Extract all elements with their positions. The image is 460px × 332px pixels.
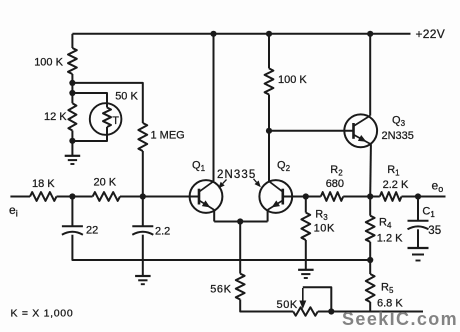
wire R5 bottom bbox=[369, 302, 371, 312]
label 6.8K bbox=[377, 297, 403, 309]
label Q1 bbox=[192, 160, 206, 174]
label C1 bbox=[422, 206, 435, 220]
svg-text:6.8 K: 6.8 K bbox=[377, 297, 403, 309]
label Q2 bbox=[277, 159, 291, 173]
capacitor 22 bbox=[62, 226, 83, 235]
node 1MEG tap bbox=[69, 80, 75, 86]
node R2 R1 R4 Q3e junction bbox=[367, 193, 373, 199]
wire rail to 100K bbox=[71, 34, 73, 48]
capacitor C1 35 bbox=[408, 221, 429, 230]
node rail-Q1 collector junction bbox=[210, 31, 216, 37]
svg-text:100 K: 100 K bbox=[278, 74, 307, 86]
svg-text:18 K: 18 K bbox=[32, 178, 55, 190]
wire Q2 emitter down bbox=[267, 210, 269, 222]
svg-text:T: T bbox=[112, 115, 119, 127]
ground below 2.2 bbox=[135, 276, 151, 284]
label 10K bbox=[314, 223, 335, 235]
wire R5 top bbox=[369, 260, 371, 274]
resistor R2 680 bbox=[321, 192, 343, 201]
label 18K bbox=[32, 178, 55, 190]
resistor 20K bbox=[93, 192, 120, 201]
svg-text:2N335: 2N335 bbox=[382, 130, 414, 142]
svg-text:SeekIC.com: SeekIC.com bbox=[342, 309, 458, 329]
wire R2 to node bbox=[343, 196, 370, 198]
wire Q3 base bbox=[269, 130, 354, 132]
arrow to Q2 bbox=[254, 179, 261, 187]
wire 22 cap bottom to bus bbox=[72, 235, 142, 260]
svg-text:680: 680 bbox=[326, 178, 344, 190]
label 35 bbox=[428, 225, 441, 237]
resistor 56K bbox=[236, 274, 245, 300]
wire Q1 collector bbox=[213, 34, 215, 182]
wire R4 bottom bbox=[369, 242, 371, 260]
node R4 R5 bus junction bbox=[367, 257, 373, 263]
thermistor circle bbox=[90, 103, 122, 135]
wire C1 bottom bbox=[417, 229, 419, 248]
transistor Q3 2N335 bbox=[344, 114, 377, 147]
wire input lead bbox=[10, 196, 30, 198]
label R5 bbox=[381, 282, 394, 296]
wire rail to 100K right bbox=[268, 34, 270, 69]
wire 2.2 cap bottom bbox=[142, 235, 144, 276]
svg-text:K = X 1,000: K = X 1,000 bbox=[11, 308, 74, 320]
resistor 50K thermistor element bbox=[103, 108, 111, 128]
label 12K bbox=[44, 111, 67, 123]
svg-text:2.2 K: 2.2 K bbox=[383, 179, 409, 191]
resistor R3 10K bbox=[301, 213, 310, 240]
resistor 18K bbox=[30, 192, 57, 201]
wire Q2 base to R3 node bbox=[283, 196, 306, 198]
svg-text:100 K: 100 K bbox=[34, 57, 63, 69]
wire Q3 collector bbox=[369, 34, 371, 116]
node rail-Q3 collector junction bbox=[367, 31, 373, 37]
label 2.2 bbox=[155, 225, 170, 237]
resistor 1MEG bbox=[138, 123, 147, 151]
ground below R3 bbox=[298, 270, 314, 278]
label 2N335 Q3 bbox=[382, 130, 414, 142]
label ei input bbox=[9, 203, 18, 219]
potentiometer 50K bbox=[293, 307, 318, 315]
svg-text:56K: 56K bbox=[210, 284, 231, 296]
resistor 100K right bbox=[265, 68, 274, 94]
ground below C1 bbox=[408, 248, 429, 261]
resistor R4 1.2K bbox=[366, 216, 375, 242]
wire R3 bottom bbox=[305, 240, 307, 270]
resistor R1 2.2K bbox=[380, 192, 402, 201]
wire 100K to Q2 collector bbox=[268, 95, 270, 182]
svg-text:20 K: 20 K bbox=[94, 177, 117, 189]
svg-text:2N335: 2N335 bbox=[217, 169, 256, 181]
wire thermistor bottom bbox=[72, 127, 107, 141]
transistor Q2 2N335 bbox=[259, 180, 292, 213]
label 100K right bbox=[278, 74, 307, 86]
label K scale note bbox=[11, 308, 74, 320]
node 1MEG-2.2 junction bbox=[140, 193, 146, 199]
wire wiper short bbox=[303, 287, 332, 311]
label 22 bbox=[86, 225, 98, 237]
resistor 100K left bbox=[68, 48, 77, 74]
node Q3 base tap bbox=[266, 128, 272, 134]
label 100K left bbox=[34, 57, 63, 69]
label R2 bbox=[330, 164, 343, 178]
wire pot to R5 bottom bbox=[318, 311, 423, 313]
wire 2.2 cap top stem bbox=[142, 197, 144, 227]
label 680 bbox=[326, 178, 344, 190]
wire +22V supply rail bbox=[72, 33, 410, 35]
label T thermistor bbox=[112, 115, 119, 127]
svg-text:50 K: 50 K bbox=[115, 90, 138, 102]
wire node to R1 bbox=[370, 196, 380, 198]
resistor 12K bbox=[68, 103, 76, 130]
svg-text:+22V: +22V bbox=[416, 27, 446, 41]
label 56K bbox=[210, 284, 231, 296]
label +22V supply bbox=[416, 27, 446, 41]
wire 18K to 20K bbox=[57, 196, 93, 198]
wire 56K bottom bbox=[240, 300, 293, 312]
wire ground stem left bbox=[71, 141, 73, 156]
svg-text:2.2: 2.2 bbox=[155, 225, 170, 237]
svg-text:50K: 50K bbox=[277, 299, 298, 311]
node thermistor top tap bbox=[69, 90, 75, 96]
label 1MEG bbox=[151, 129, 185, 141]
wire Q1 emitter down bbox=[213, 210, 215, 222]
arrow to Q1 bbox=[218, 180, 226, 189]
label 20K bbox=[94, 177, 117, 189]
label 2.2K bbox=[383, 179, 409, 191]
wire 1MEG bottom bbox=[142, 151, 144, 197]
wire emitter rail bbox=[214, 221, 267, 223]
transistor Q1 2N335 bbox=[190, 180, 223, 213]
svg-text:35: 35 bbox=[428, 225, 441, 237]
wire R1 to output bbox=[402, 196, 446, 198]
wire 100K to 12K bbox=[71, 74, 73, 103]
label 50K thermistor bbox=[115, 90, 138, 102]
label 50K pot bbox=[277, 299, 298, 311]
node output junction bbox=[415, 193, 421, 199]
wire R3 top bbox=[305, 197, 307, 213]
node wiper junction bbox=[328, 308, 334, 314]
label eo output bbox=[432, 179, 444, 195]
label R3 bbox=[315, 208, 328, 222]
wire ground bus bbox=[143, 259, 370, 261]
capacitor 2.2 bbox=[132, 226, 153, 235]
label 1.2K bbox=[377, 233, 403, 245]
wire emitter to 56K bbox=[239, 222, 241, 274]
wire thermistor top bbox=[72, 93, 107, 108]
svg-text:1 MEG: 1 MEG bbox=[151, 129, 185, 141]
wire 22 cap top stem bbox=[71, 197, 73, 227]
resistor R5 6.8K bbox=[366, 274, 375, 302]
label Q3 bbox=[392, 114, 406, 128]
pot wiper arrow bbox=[299, 288, 306, 309]
svg-text:12 K: 12 K bbox=[44, 111, 67, 123]
label R4 bbox=[379, 217, 392, 231]
wire 12K to ground bbox=[71, 131, 73, 142]
wire Q3 emitter down bbox=[369, 144, 372, 196]
wire R3node to R2 bbox=[306, 196, 321, 198]
svg-text:1.2 K: 1.2 K bbox=[377, 233, 403, 245]
wire R4 top bbox=[369, 197, 371, 216]
svg-text:10K: 10K bbox=[314, 223, 335, 235]
ground below 12K bbox=[65, 156, 81, 164]
watermark SeekIC.com bbox=[342, 309, 458, 329]
node Q2 base R3 R2 junction bbox=[303, 193, 309, 199]
svg-text:22: 22 bbox=[86, 225, 98, 237]
wire 20K to Q1 base bbox=[120, 196, 199, 198]
node thermistor bottom tap bbox=[69, 138, 75, 144]
wire 1MEG top bbox=[72, 83, 142, 123]
wire C1 top stem bbox=[417, 197, 419, 221]
label R1 bbox=[387, 164, 400, 178]
label 2N335 pair bbox=[217, 169, 256, 181]
node emitter junction bbox=[237, 218, 243, 224]
node 22uF tap bbox=[69, 193, 75, 199]
node rail-100K junction bbox=[266, 31, 272, 37]
